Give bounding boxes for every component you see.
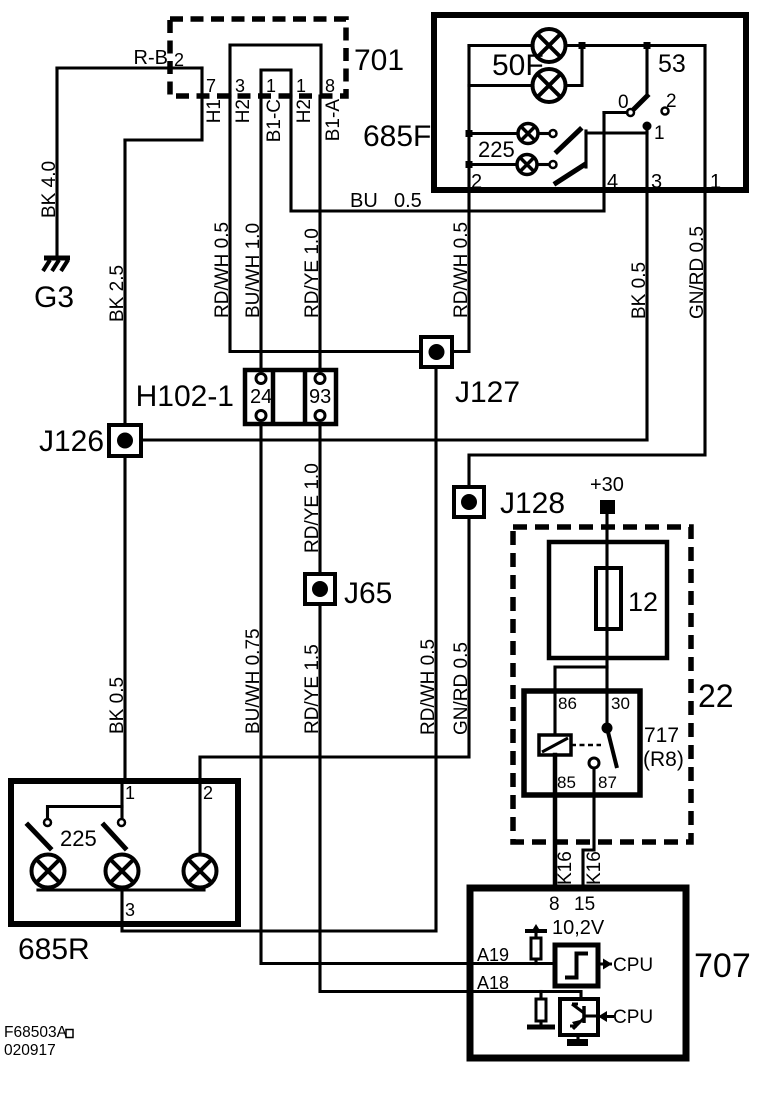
lamp 225 upper (685F) — [518, 124, 538, 144]
relay contact 30 dot — [602, 723, 613, 734]
pin circle 24 bottom — [256, 411, 266, 421]
svg-text:B1-A: B1-A — [323, 99, 344, 142]
contact circle lower (685F small) — [550, 161, 557, 168]
wire J126 branch to BK riser — [141, 438, 647, 441]
label 225 (685R) — [60, 826, 97, 851]
junction dot bus row4 — [466, 161, 473, 168]
svg-text:BK 4.0: BK 4.0 — [39, 161, 60, 218]
wire branch to relay coil 86 — [555, 667, 607, 735]
unit 685R box — [11, 781, 238, 924]
label G3 — [34, 281, 74, 314]
svg-text:717: 717 — [644, 724, 679, 747]
svg-text:CPU: CPU — [613, 955, 653, 976]
wire pin 1 into switches — [120, 781, 123, 819]
svg-text:J65: J65 — [344, 577, 392, 610]
junction J65 box — [305, 574, 335, 604]
pin 2 label (685R) — [203, 783, 213, 803]
relay 717 box — [524, 691, 640, 795]
svg-text:BU/WH 0.75: BU/WH 0.75 — [243, 628, 264, 734]
switch lever upper (685F) — [557, 130, 580, 152]
switch lever lower (685F) — [556, 165, 584, 183]
contact circle mid (685R) — [118, 819, 125, 826]
wire switched bus to contact 1 — [586, 131, 647, 134]
svg-text:225: 225 — [60, 826, 97, 851]
wire contact 1 down to pin 3 and beyond — [645, 126, 648, 190]
label BK 2.5 — [107, 265, 128, 322]
lamp 50F upper — [533, 29, 566, 62]
label 1 (contact) — [654, 123, 665, 144]
fuse 12 symbol — [596, 568, 621, 629]
svg-text:2: 2 — [666, 91, 677, 112]
svg-text:701: 701 — [354, 44, 404, 77]
pin 1 label (685F) — [710, 171, 721, 193]
svg-text:1: 1 — [710, 171, 721, 193]
svg-text:GN/RD 0.5: GN/RD 0.5 — [451, 642, 472, 735]
svg-text:RD/WH 0.5: RD/WH 0.5 — [212, 222, 233, 318]
label R-B — [134, 47, 168, 69]
svg-text:1: 1 — [296, 76, 306, 96]
label 50F — [492, 49, 544, 82]
wire 701 pin7 H1 down-left jog to BK riser — [125, 96, 202, 140]
wire pin 2 down to right lamp — [198, 781, 201, 855]
svg-text:3: 3 — [125, 900, 135, 920]
svg-text:10,2V: 10,2V — [552, 917, 605, 939]
wire lamp bottom bus — [38, 888, 204, 891]
input stage box (opto) — [560, 999, 598, 1035]
ground stem opto — [576, 1035, 579, 1040]
wire RD/YE 1.0 from pin 8 down to H102-1 pin 93 — [318, 96, 321, 374]
relay coil — [539, 735, 571, 755]
pin 4 label — [607, 171, 618, 193]
label 717 (R8) — [643, 724, 684, 771]
svg-text:K16: K16 — [555, 851, 576, 885]
wire BK 2.5 vertical from jog to J126 — [123, 140, 126, 425]
wire BU/WH 0.75 from H102-1 pin 24 down and right to 707 A19 — [261, 420, 555, 964]
label 0 — [618, 92, 629, 113]
ground bar pull-down — [527, 1025, 555, 1030]
pin 8 label — [325, 76, 335, 96]
svg-text:4: 4 — [607, 171, 618, 193]
svg-text:J127: J127 — [455, 376, 520, 409]
wire RD/YE 1.5 from H102-1 pin 93 down through J65 and right to 707 A18 — [320, 420, 581, 999]
lamp 50F lower — [533, 69, 566, 102]
svg-text:(R8): (R8) — [643, 748, 684, 771]
label K16 left — [555, 851, 576, 885]
svg-text:A19: A19 — [477, 945, 509, 965]
wire RD/WH 0.5 from pin 3 down and right to J127 — [230, 96, 421, 352]
label pin 93 — [309, 386, 331, 408]
label GN/RD 0.5 (lower) — [451, 642, 472, 735]
label RD/WH 0.5 (right upper) — [451, 222, 472, 318]
ground G3 symbol — [43, 258, 70, 271]
label J128 — [500, 487, 565, 520]
wire BK 0.5 from J126 down to 685R pin 1 — [123, 456, 126, 781]
svg-text:87: 87 — [598, 773, 617, 792]
pin 1 label (685R) — [125, 783, 135, 803]
label H2 (right pin 1) — [294, 99, 315, 123]
label CPU lower — [613, 1007, 653, 1028]
label 30 — [611, 694, 630, 713]
pin 15 label — [574, 894, 595, 915]
pin circle 24 top — [256, 374, 266, 384]
arrow from CPU (lower) — [598, 1011, 614, 1022]
pin 8 label — [549, 894, 560, 915]
svg-text:1: 1 — [654, 123, 665, 144]
svg-text:B1-C: B1-C — [264, 99, 285, 142]
relay actuation dashed line — [571, 744, 601, 747]
resistor pull-up — [531, 938, 541, 959]
wire internal link pin2 to pin7 — [200, 68, 203, 96]
wire lamp to contact — [538, 132, 549, 135]
svg-text:BK 0.5: BK 0.5 — [629, 262, 650, 319]
label 22 — [698, 678, 734, 714]
svg-text:H2: H2 — [294, 99, 315, 123]
pin 3 label (685F) — [651, 171, 662, 193]
label 12 — [628, 587, 658, 617]
label K16 right — [584, 851, 605, 885]
wire contact 87 down with jog to 707 pin 15 — [583, 768, 594, 888]
label GN/RD 0.5 (right) — [687, 226, 708, 319]
label 701 — [354, 44, 404, 77]
pin 2 label (685F) — [471, 171, 482, 193]
svg-text:30: 30 — [611, 694, 630, 713]
wire BU 0.5 from pin 1 H2 down and right to 685F pin 4 — [291, 96, 604, 211]
resistor pull-down — [536, 999, 546, 1021]
wire switch feed jumper — [48, 807, 123, 820]
label RD/WH 0.5 (upper left) — [212, 222, 233, 318]
label 10,2V — [552, 917, 605, 939]
unit 22 dashed box — [513, 527, 691, 842]
svg-text:8: 8 — [549, 894, 560, 915]
wire RD/WH 0.5 from J127 down to 685R pin 3 link — [122, 367, 436, 931]
wire 225 lamp row 1 — [469, 132, 518, 135]
label J126 — [39, 425, 104, 458]
opto transistor symbol — [570, 1004, 596, 1029]
label 685R — [18, 933, 90, 966]
svg-text:3: 3 — [235, 76, 245, 96]
label BK 4.0 — [39, 161, 60, 218]
label 707 — [694, 947, 751, 985]
label RD/YE 1.0 (upper) — [302, 228, 323, 318]
switch lever left (685R) — [28, 825, 50, 848]
connector H102-1 box — [245, 370, 336, 424]
wire R-B horizontal from G3 riser to connector 701 pin 2 — [57, 66, 202, 69]
label BU/WH 0.75 — [243, 628, 264, 734]
wire pin 1 riser (685F) — [703, 46, 706, 191]
pin 1 label (B1-C) — [266, 76, 276, 96]
wire 225 lamp row 2 — [469, 163, 517, 166]
wire pull-up resistor stem — [534, 933, 537, 964]
svg-text:RD/WH 0.5: RD/WH 0.5 — [451, 222, 472, 318]
threshold stage box — [555, 945, 598, 986]
svg-text:53: 53 — [658, 50, 686, 78]
svg-text:K16: K16 — [584, 851, 605, 885]
wire lamp to contact lower — [537, 163, 549, 166]
pin 2 label (701 left) — [174, 50, 184, 70]
wire pull-down resistor stem — [539, 992, 542, 1027]
svg-text:H2: H2 — [233, 99, 254, 123]
label 87 — [598, 773, 617, 792]
wire coil 85 down to 707 pin 8 (thick) — [553, 755, 558, 888]
pin circle 93 bottom — [315, 411, 325, 421]
svg-text:RD/YE 1.0: RD/YE 1.0 — [302, 463, 323, 553]
svg-text:93: 93 — [309, 386, 331, 408]
label CPU upper — [613, 955, 653, 976]
lamp 225 lower (685F) — [517, 155, 537, 175]
label RD/YE 1.0 (mid) — [302, 463, 323, 553]
lamp mid (685R) — [106, 855, 139, 888]
svg-text:R-B: R-B — [134, 47, 168, 69]
svg-text:BK 0.5: BK 0.5 — [107, 677, 128, 734]
svg-text:8: 8 — [325, 76, 335, 96]
pin circle 93 top — [315, 374, 325, 384]
svg-text:BU: BU — [350, 190, 378, 212]
wire BK 4.0 vertical down to ground G3 — [55, 68, 58, 257]
label 85 — [557, 773, 576, 792]
wire internal link pin3 to pin8 — [230, 45, 321, 96]
unit 707 box — [470, 888, 686, 1058]
threshold step symbol — [565, 954, 588, 978]
svg-text:RD/YE 1.5: RD/YE 1.5 — [302, 644, 323, 734]
contact 1 dot — [643, 122, 652, 131]
wire GN/RD 0.5 from J128 down, left to 685R pin 2 — [200, 517, 469, 781]
label BK 0.5 (lower left) — [107, 677, 128, 734]
wire switch pivot bar — [584, 131, 587, 167]
selector lever (position 0) — [633, 96, 647, 110]
junction J128 box — [454, 487, 484, 517]
arrow to CPU (upper) — [598, 959, 612, 970]
relay contact 87 circle — [589, 758, 599, 768]
lamp right (685R) — [184, 855, 217, 888]
supply rail symbol with up arrow — [525, 924, 547, 933]
svg-text:85: 85 — [557, 773, 576, 792]
connector 701 dashed box — [170, 19, 346, 96]
footer code F68503A — [4, 1024, 73, 1041]
wire +30 down through fuse to relay contact 30 — [605, 514, 608, 723]
label BU 0.5 — [350, 190, 422, 212]
svg-text:RD/YE 1.0: RD/YE 1.0 — [302, 228, 323, 318]
svg-text:22: 22 — [698, 678, 734, 714]
svg-text:GN/RD 0.5: GN/RD 0.5 — [687, 226, 708, 319]
contact 2 circle — [662, 108, 669, 115]
terminal +30 square — [600, 500, 615, 514]
switch lever mid (685R) — [104, 825, 125, 848]
pin 3 label — [235, 76, 245, 96]
label RD/YE 1.5 (lower) — [302, 644, 323, 734]
junction J126 box — [109, 425, 141, 456]
svg-text:0.5: 0.5 — [394, 190, 422, 212]
wire GN/RD 0.5 from 685F pin 1 down, left, down to J128 — [469, 190, 705, 487]
relay lever — [607, 728, 617, 768]
unit 685F box — [434, 15, 746, 190]
svg-text:2: 2 — [174, 50, 184, 70]
junction dot bus row3 — [466, 130, 473, 137]
label A19 — [477, 945, 509, 965]
label +30 — [590, 474, 624, 496]
label 2 (contact) — [666, 91, 677, 112]
wire lamp row 1 left — [469, 44, 533, 47]
svg-text:BK 2.5: BK 2.5 — [107, 265, 128, 322]
wire internal link pin1 B1-C to pin1 H2 — [261, 70, 291, 96]
label RD/WH 0.5 (lower) — [418, 639, 439, 735]
svg-text:225: 225 — [478, 137, 515, 162]
label J65 — [344, 577, 392, 610]
label 225 (685F) — [478, 137, 515, 162]
label pin 24 — [250, 386, 272, 408]
wire 53 down to selector lever — [645, 46, 648, 97]
junction dot lamp rows — [579, 42, 586, 49]
wire contact 0 to pin 4 — [604, 111, 627, 114]
svg-text:2: 2 — [203, 783, 213, 803]
label H102-1 — [136, 380, 234, 413]
svg-text:7: 7 — [206, 76, 216, 96]
contact circle upper (685F small) — [550, 130, 557, 137]
wire lamp row 1 right to pin 1 riser — [566, 44, 706, 47]
svg-text:685R: 685R — [18, 933, 90, 966]
svg-text:+30: +30 — [590, 474, 624, 496]
label J127 — [455, 376, 520, 409]
wire RD/WH 0.5 from 685F pin 2 down to J127 — [452, 190, 469, 352]
lamp left (685R) — [32, 855, 65, 888]
svg-text:CPU: CPU — [613, 1007, 653, 1028]
label H2 (pin 3) — [233, 99, 254, 123]
svg-text:3: 3 — [651, 171, 662, 193]
pin 1 label (H2 right) — [296, 76, 306, 96]
wire lamp row 2 right up to row 1 — [566, 46, 583, 86]
svg-text:24: 24 — [250, 386, 272, 408]
svg-text:J126: J126 — [39, 425, 104, 458]
svg-text:F68503A: F68503A — [4, 1024, 68, 1041]
junction dot 53 branch — [644, 42, 651, 49]
label 53 — [658, 50, 686, 78]
pin 3 label (685R) — [125, 900, 135, 920]
contact circle left (685R) — [44, 819, 51, 826]
label B1-C — [264, 99, 285, 142]
svg-text:2: 2 — [471, 171, 482, 193]
svg-text:15: 15 — [574, 894, 595, 915]
label 86 — [558, 694, 577, 713]
svg-text:RD/WH 0.5: RD/WH 0.5 — [418, 639, 439, 735]
label BU/WH 1.0 — [243, 223, 264, 318]
footer date 020917 — [4, 1042, 56, 1059]
junction J127 box — [421, 337, 452, 367]
wire bus down to pin 3 — [120, 890, 123, 924]
svg-text:1: 1 — [125, 783, 135, 803]
label 685F — [363, 120, 431, 153]
svg-text:86: 86 — [558, 694, 577, 713]
svg-text:G3: G3 — [34, 281, 74, 314]
ground bar opto — [567, 1039, 588, 1046]
svg-text:020917: 020917 — [4, 1042, 56, 1059]
wire lamp row 2 left — [469, 84, 533, 87]
svg-text:BU/WH 1.0: BU/WH 1.0 — [243, 223, 264, 318]
label BK 0.5 (right) — [629, 262, 650, 319]
wire 685F internal bus pin 2 — [467, 46, 470, 191]
svg-text:A18: A18 — [477, 973, 509, 993]
contact 0 circle — [627, 109, 634, 116]
svg-text:H1: H1 — [204, 99, 225, 123]
svg-text:12: 12 — [628, 587, 658, 617]
wire BU/WH 1.0 from pin 1 B1-C down to H102-1 pin 24 — [259, 96, 262, 374]
svg-text:H102-1: H102-1 — [136, 380, 234, 413]
label H1 — [204, 99, 225, 123]
svg-text:1: 1 — [266, 76, 276, 96]
label B1-A — [323, 99, 344, 142]
pin 7 label — [206, 76, 216, 96]
label A18 — [477, 973, 509, 993]
svg-text:707: 707 — [694, 947, 751, 985]
svg-text:685F: 685F — [363, 120, 431, 153]
wire BK 0.5 from 685F pin 3 down to J126 branch — [645, 190, 648, 440]
fuse holder box — [549, 542, 667, 658]
svg-text:J128: J128 — [500, 487, 565, 520]
